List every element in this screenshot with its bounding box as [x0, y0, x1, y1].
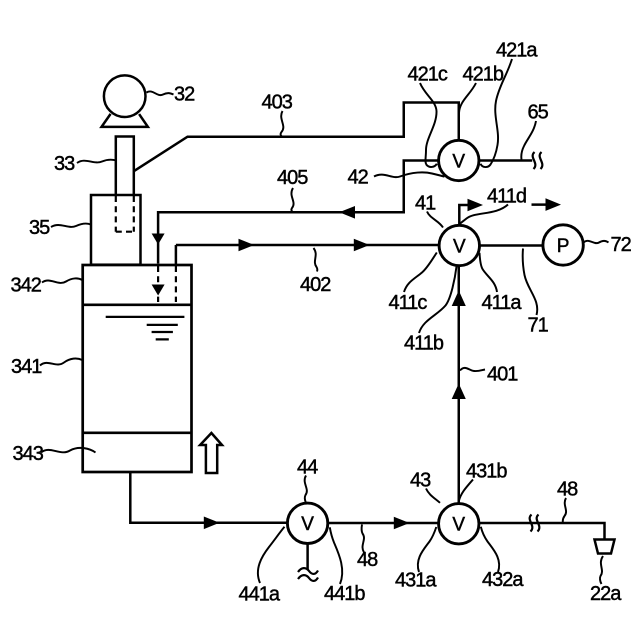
leader 44 — [305, 476, 307, 503]
leader 342 — [42, 278, 82, 283]
svg-text:41: 41 — [415, 193, 436, 215]
svg-text:22a: 22a — [590, 583, 622, 605]
arrow on 405 (left) — [339, 206, 355, 219]
svg-text:43: 43 — [410, 470, 431, 492]
line 48 valve44 to valve43 — [328, 522, 439, 525]
arrow 401 upper — [452, 291, 466, 307]
leader 48 left — [362, 525, 364, 553]
line 401 — [458, 266, 461, 504]
leader 48 right — [563, 498, 566, 524]
leader 411c — [404, 253, 437, 293]
svg-text:403: 403 — [262, 92, 293, 114]
arrow on 405 vertical (down) — [152, 234, 165, 245]
svg-text:431a: 431a — [395, 570, 437, 592]
svg-text:42: 42 — [348, 167, 369, 189]
leader 33 — [77, 160, 117, 163]
leader 41 — [427, 212, 443, 228]
leader 411b — [419, 267, 457, 334]
svg-text:48: 48 — [357, 549, 378, 571]
pipe 402 dashed in tank — [175, 266, 177, 302]
break 65 — [533, 152, 536, 169]
arrow outlet — [204, 517, 220, 530]
leader 421a — [481, 59, 513, 167]
svg-text:65: 65 — [528, 102, 549, 124]
nozzle 22a — [595, 540, 615, 554]
leader 72 — [584, 241, 609, 243]
svg-text:441b: 441b — [324, 583, 365, 605]
svg-text:411d: 411d — [487, 186, 526, 208]
line 405 — [158, 161, 439, 264]
svg-text:342: 342 — [11, 275, 42, 297]
arrow 48 — [394, 517, 410, 530]
svg-text:72: 72 — [611, 234, 632, 256]
break 48 — [530, 515, 533, 532]
svg-text:441a: 441a — [239, 584, 281, 606]
leader 35 — [51, 224, 91, 227]
leader 65 — [521, 121, 536, 160]
svg-text:33: 33 — [54, 153, 75, 175]
vessel 35 — [91, 195, 141, 265]
svg-text:V: V — [301, 514, 314, 535]
line 71 to gauge — [479, 244, 543, 247]
leader 341 — [40, 359, 82, 366]
tank 34 outer — [83, 265, 192, 472]
svg-text:P: P — [557, 236, 570, 257]
svg-text:421b: 421b — [463, 64, 504, 86]
svg-text:411b: 411b — [404, 333, 444, 355]
tank divider 342 — [83, 303, 192, 306]
svg-text:35: 35 — [29, 217, 50, 239]
svg-text:V: V — [453, 236, 466, 257]
leader 441b — [330, 527, 342, 584]
leader 71 — [523, 249, 538, 316]
arrow 402 a — [239, 239, 255, 252]
svg-text:V: V — [452, 151, 465, 172]
tank outlet line — [130, 471, 287, 523]
pump 32 circle — [104, 75, 146, 117]
branch 411d — [459, 205, 472, 226]
svg-text:48: 48 — [557, 479, 578, 501]
svg-text:432a: 432a — [482, 569, 524, 591]
line 403 — [134, 103, 459, 172]
leader 403 — [281, 111, 284, 137]
svg-text:411a: 411a — [482, 292, 523, 314]
valve 44 drain — [306, 544, 309, 570]
svg-text:V: V — [452, 515, 465, 536]
leader 421b — [459, 83, 477, 140]
svg-text:405: 405 — [277, 167, 308, 189]
pump 32 base trapezoid — [102, 114, 148, 127]
leader 431a — [418, 527, 436, 572]
leader 22a — [600, 556, 603, 584]
gauge P 72 — [543, 225, 583, 265]
svg-text:32: 32 — [174, 84, 195, 106]
tank divider 343 — [83, 431, 192, 434]
valve 42 — [439, 140, 479, 180]
pipe 33 dashed continuation — [115, 196, 117, 232]
svg-text:341: 341 — [11, 356, 42, 378]
leader 421c — [420, 83, 437, 167]
break below 44 — [298, 568, 318, 574]
arrow 402 b — [354, 239, 370, 252]
svg-text:421a: 421a — [496, 40, 538, 62]
line 48 to nozzle — [479, 523, 605, 539]
leader 32 — [147, 91, 174, 95]
leader 431b — [459, 480, 473, 502]
leader 402 — [314, 248, 318, 272]
leader 42 — [374, 172, 445, 177]
leader 401 — [460, 368, 485, 371]
valve 41 — [439, 225, 479, 265]
leader 411a — [480, 253, 498, 292]
water level mark — [106, 317, 185, 340]
pipe 33 — [116, 137, 134, 196]
hollow arrow — [200, 433, 222, 473]
arrow 411d b — [532, 203, 549, 206]
arrow 401 lower — [452, 384, 466, 400]
line 402 — [176, 245, 439, 264]
svg-text:421c: 421c — [408, 64, 448, 86]
svg-text:402: 402 — [300, 274, 331, 296]
leader 411d — [460, 205, 508, 225]
svg-text:71: 71 — [528, 315, 549, 337]
svg-text:411c: 411c — [389, 292, 428, 314]
pipe 405 dashed in tank — [157, 266, 159, 302]
svg-text:431b: 431b — [466, 461, 507, 483]
arrow 411d a — [468, 199, 484, 212]
leader 441a — [258, 527, 285, 583]
leader 343 — [41, 448, 96, 453]
leader 405 — [291, 188, 293, 212]
valve 43 — [439, 504, 479, 544]
line 65 — [478, 159, 532, 162]
arrow in tank (down) — [152, 285, 165, 296]
leader 43 — [426, 489, 440, 503]
svg-text:44: 44 — [297, 457, 318, 479]
svg-text:401: 401 — [487, 364, 518, 386]
valve 44 — [287, 503, 327, 543]
leader 432a — [481, 527, 499, 572]
svg-text:343: 343 — [13, 443, 44, 465]
